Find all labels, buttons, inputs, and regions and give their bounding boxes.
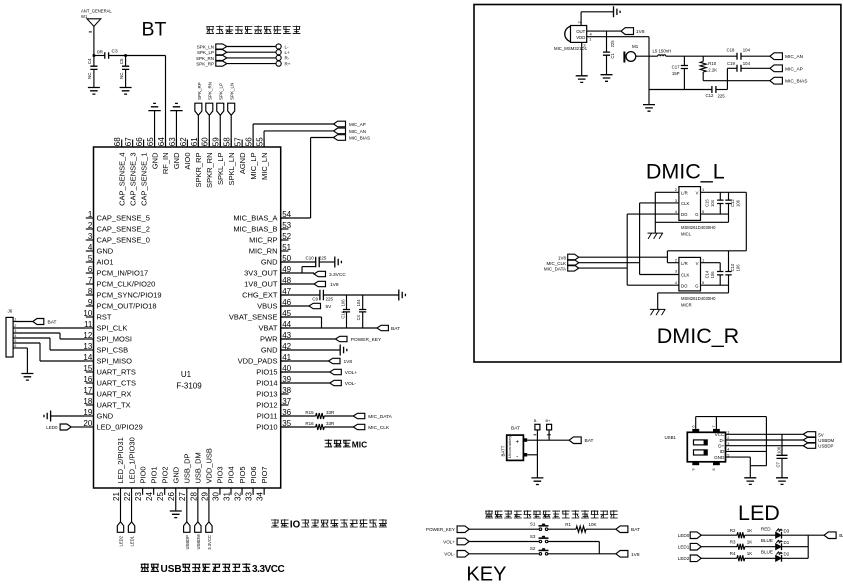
ground (C7) <box>776 478 788 485</box>
svg-text:UART_RTS: UART_RTS <box>97 368 136 377</box>
U1 pin 59 SPKL_LP <box>219 140 221 148</box>
svg-text:38: 38 <box>282 386 291 395</box>
svg-text:C18: C18 <box>727 48 735 53</box>
svg-text:SPK_LP: SPK_LP <box>219 83 224 100</box>
svg-text:8: 8 <box>88 287 93 296</box>
U1 pin 53 MIC_BIAS_B <box>281 228 289 230</box>
resistor R16 33R <box>281 426 316 428</box>
wire MICR G <box>701 284 729 286</box>
wire MIC_LN (pin55) to MIC_AN <box>263 131 265 147</box>
ground bar above pin 63 <box>175 111 177 147</box>
U1 pin 44 VBAT <box>281 327 289 329</box>
wire J6-6 to ground <box>13 347 27 349</box>
svg-text:1V8: 1V8 <box>558 255 567 260</box>
U1 pin 18 UART_TX <box>86 404 94 406</box>
svg-text:GND: GND <box>97 247 114 256</box>
net tag MIC_CLK <box>353 424 365 429</box>
wire LED1 to R3 <box>701 546 737 548</box>
U1 pin 49 3V3_OUT <box>281 272 289 274</box>
svg-text:1: 1 <box>88 210 93 219</box>
wire R1 to BAT tag <box>586 528 616 530</box>
net tag USBDM (pin28) <box>197 495 199 522</box>
svg-text:MIC_AN: MIC_AN <box>785 54 804 60</box>
svg-text:VCC: VCC <box>715 432 725 437</box>
U1 pin 63 GND <box>175 140 177 148</box>
wire C19 to MIC_AP tag <box>741 67 770 69</box>
net tag MIC_AP <box>334 121 346 127</box>
svg-text:1K: 1K <box>747 551 753 556</box>
wire J6-4 to SPI_CSB <box>13 337 50 339</box>
svg-text:55: 55 <box>255 137 264 146</box>
svg-text:RST: RST <box>97 313 112 322</box>
svg-text:MICL: MICL <box>681 232 692 237</box>
capacitor C4 (NC) <box>124 54 127 57</box>
svg-text:D1: D1 <box>784 540 790 545</box>
svg-text:34: 34 <box>256 492 265 501</box>
U1 pin 47 CHG_EXT <box>281 294 289 296</box>
sideways ground (mic top) <box>614 6 621 17</box>
pad B- <box>535 424 540 430</box>
svg-text:3.3VCC: 3.3VCC <box>329 272 346 278</box>
svg-text:SPK_LP: SPK_LP <box>197 50 214 55</box>
svg-text:LED_1/PIO30: LED_1/PIO30 <box>127 437 136 483</box>
U1 pin 66 CAP_SENSE_1 <box>143 140 145 148</box>
svg-text:5V: 5V <box>326 304 333 310</box>
ground (rail) <box>648 90 650 105</box>
svg-text:1K: 1K <box>747 528 753 533</box>
wire D1 to bus <box>782 546 809 548</box>
wire mic pin3 to ground <box>581 42 583 75</box>
svg-text:225: 225 <box>319 256 327 261</box>
wire mic OUT to 1V8 tag <box>587 30 621 32</box>
svg-text:IO: IO <box>290 520 301 531</box>
U1 pin 50 GND <box>281 261 289 263</box>
svg-text:225: 225 <box>718 94 726 99</box>
wire C18 to MIC_AN tag <box>741 55 770 57</box>
svg-text:106: 106 <box>710 271 715 279</box>
capacitor C9 225 <box>320 290 324 301</box>
svg-text:225: 225 <box>610 40 615 48</box>
net tag 1V8 (pin41) <box>329 358 341 363</box>
mic module MIC_MSM321D1 <box>571 26 587 43</box>
ground (pin26 GND) <box>175 495 177 511</box>
wire battery+ to BAT tag <box>527 439 569 441</box>
svg-text:PIO13: PIO13 <box>256 390 277 399</box>
capacitor C13 106 (MICR) <box>728 251 730 272</box>
wire C9 to ground rail <box>323 294 398 296</box>
U1 pin 48 1V8_OUT <box>281 283 289 285</box>
svg-text:5V: 5V <box>818 432 823 437</box>
wire MICR ground net <box>728 285 730 293</box>
wire R3 to D1 <box>745 546 776 548</box>
svg-text:37: 37 <box>282 397 291 406</box>
svg-text:6: 6 <box>88 265 93 274</box>
svg-text:MIC_DATA: MIC_DATA <box>368 414 392 420</box>
U1 pin 21 LED_2/PIO31 <box>120 488 122 495</box>
U1 pin 12 SPI_MOSI <box>86 338 94 340</box>
U1 pin 6 PCM_IN/PIO17 <box>86 272 94 274</box>
svg-text:C12: C12 <box>730 199 735 207</box>
wire mic pin2 to sideways ground <box>580 12 582 26</box>
net tag 1V8 (KEY) <box>616 551 628 558</box>
svg-text:PIO10: PIO10 <box>256 423 277 432</box>
sideways ground (pin50) <box>335 257 342 268</box>
net tag USBDP (pin27) <box>186 495 188 522</box>
diagonal ground (MICL) <box>648 233 664 239</box>
svg-text:9: 9 <box>692 469 696 471</box>
svg-text:SPK_LN: SPK_LN <box>230 83 235 100</box>
svg-text:GND: GND <box>172 152 181 169</box>
svg-text:USBDP: USBDP <box>818 444 833 449</box>
svg-text:D3: D3 <box>784 528 790 533</box>
svg-text:57: 57 <box>234 137 243 146</box>
wire S1 to R1 <box>548 528 576 530</box>
svg-text:PIO5: PIO5 <box>238 466 247 483</box>
svg-text:LED0: LED0 <box>46 425 58 430</box>
resistor R1 10K <box>576 526 586 532</box>
svg-text:24: 24 <box>145 492 154 501</box>
svg-text:VBAT_SENSE: VBAT_SENSE <box>229 313 278 322</box>
net tag BAT (J6) <box>33 319 44 325</box>
header pin R- <box>276 55 281 60</box>
net tag USBDP <box>803 443 816 448</box>
svg-text:BLUE: BLUE <box>761 538 773 543</box>
wire C3 to RF_IN <box>109 55 166 57</box>
svg-text:KEY: KEY <box>466 564 506 585</box>
svg-text:J6: J6 <box>8 309 13 314</box>
U1 pin 5 AIO1 <box>86 261 94 263</box>
U1 pin 45 VBAT_SENSE <box>281 316 289 318</box>
svg-text:CHG_EXT: CHG_EXT <box>242 291 278 300</box>
svg-text:3.3VCC: 3.3VCC <box>252 564 285 575</box>
wire R2 to D3 <box>745 534 776 536</box>
IC U1 F-3109 body <box>94 147 281 488</box>
pad B+ <box>547 424 552 430</box>
svg-text:U1: U1 <box>181 370 192 379</box>
svg-text:C1: C1 <box>610 53 615 59</box>
wire B+ to BAT net <box>548 430 550 440</box>
svg-text:DO: DO <box>681 283 688 288</box>
svg-text:15P: 15P <box>672 71 680 76</box>
switch S1 <box>539 528 542 531</box>
svg-text:LED1: LED1 <box>678 545 690 550</box>
svg-text:31: 31 <box>222 492 231 501</box>
svg-text:UART_RX: UART_RX <box>97 390 132 399</box>
wire pin44 VBAT row <box>281 327 377 329</box>
svg-text:3.3VCC: 3.3VCC <box>207 535 212 550</box>
svg-text:VDD_PADS: VDD_PADS <box>238 357 278 366</box>
wire J6-2 to SPI_CLK <box>13 327 86 329</box>
U1 pin 58 SPKL_LN <box>230 140 232 148</box>
wire C10 to ground <box>319 261 335 263</box>
svg-text:PIO4: PIO4 <box>227 466 236 483</box>
capacitor C14 106 (MICR) <box>719 263 721 272</box>
svg-text:L-: L- <box>285 44 290 49</box>
svg-text:106: 106 <box>735 264 740 272</box>
svg-text:SPKL_LP: SPKL_LP <box>216 153 225 186</box>
svg-text:BAT: BAT <box>511 425 520 431</box>
svg-text:SPKL_LN: SPKL_LN <box>227 153 236 186</box>
switch S2 <box>539 553 542 556</box>
svg-text:LED1: LED1 <box>130 535 135 546</box>
U1 pin 24 PIO1 <box>153 488 155 495</box>
svg-text:SPI_MOSI: SPI_MOSI <box>97 335 132 344</box>
wire pin49 3V3_OUT <box>281 272 314 274</box>
svg-text:GND: GND <box>97 412 114 421</box>
wire SPK_RN to header pin <box>227 57 276 59</box>
svg-text:R16: R16 <box>305 421 314 426</box>
svg-text:1V8_OUT: 1V8_OUT <box>244 280 278 289</box>
net tag 3.3VCC (pin49) <box>314 271 326 276</box>
svg-text:106: 106 <box>735 199 740 207</box>
wire LED2 to R4 <box>701 557 737 559</box>
svg-text:R4: R4 <box>730 551 736 556</box>
net tag 5V (pin46) <box>309 303 321 308</box>
svg-text:AIO0: AIO0 <box>183 153 192 170</box>
svg-text:B+: B+ <box>546 419 552 423</box>
svg-text:RF_IN: RF_IN <box>161 153 170 175</box>
svg-text:SPI_CSB: SPI_CSB <box>97 346 129 355</box>
svg-text:RED: RED <box>761 527 771 532</box>
svg-text:2: 2 <box>88 221 93 230</box>
net tag LED1 (pin22) <box>131 495 133 522</box>
svg-text:GND: GND <box>171 466 180 483</box>
resistor R3 1K <box>737 544 745 550</box>
net tag BAT (battery) <box>569 437 581 444</box>
wire MICL G <box>701 213 729 215</box>
svg-text:C15: C15 <box>705 199 710 207</box>
net tag POWER_KEY <box>336 336 348 341</box>
wire MICR DO <box>627 284 679 286</box>
U1 pin 36 PIO11 <box>281 415 289 417</box>
svg-text:PCM_IN/PIO17: PCM_IN/PIO17 <box>97 269 149 278</box>
svg-text:33: 33 <box>245 492 254 501</box>
svg-text:104: 104 <box>710 199 715 207</box>
svg-text:53: 53 <box>282 221 291 230</box>
svg-text:MIC_MSM321D1: MIC_MSM321D1 <box>554 46 588 51</box>
net tag BAT (KEY) <box>616 526 628 533</box>
svg-text:ANT_GENERAL: ANT_GENERAL <box>81 8 112 13</box>
svg-text:64: 64 <box>157 137 166 146</box>
svg-text:SPK_RN: SPK_RN <box>196 56 214 61</box>
wire D2 to bus <box>782 557 809 559</box>
svg-text:23: 23 <box>134 492 143 501</box>
U1 pin 29 VDD_USB <box>208 488 210 495</box>
switch S3 <box>539 540 542 543</box>
svg-text:68: 68 <box>113 137 122 146</box>
svg-text:AIO1: AIO1 <box>97 258 114 267</box>
svg-text:5: 5 <box>88 254 93 263</box>
svg-text:R15: R15 <box>305 410 314 415</box>
U1 pin 41 VDD_PADS <box>281 360 289 362</box>
svg-text:67: 67 <box>124 137 133 146</box>
svg-text:CAP_SENSE_5: CAP_SENSE_5 <box>97 214 150 223</box>
svg-text:61: 61 <box>190 137 199 146</box>
svg-text:3: 3 <box>88 232 93 241</box>
wire M1 signal <box>636 55 658 57</box>
U1 pin 54 MIC_BIAS_A <box>281 217 289 219</box>
svg-text:MIC: MIC <box>352 440 367 450</box>
U1 pin 33 PIO6 <box>252 488 254 495</box>
svg-text:PIO14: PIO14 <box>256 379 277 388</box>
wire R4 to D2 <box>745 557 776 559</box>
svg-text:VOL-: VOL- <box>444 552 455 557</box>
svg-text:32: 32 <box>233 492 242 501</box>
USB shell wire <box>695 417 697 429</box>
svg-text:PWR: PWR <box>260 335 278 344</box>
svg-text:VOL-: VOL- <box>345 381 357 387</box>
svg-text:25: 25 <box>156 492 165 501</box>
net tag USBDM <box>803 437 816 442</box>
U1 pin 34 PIO7 <box>263 488 265 495</box>
svg-text:R2: R2 <box>730 528 736 533</box>
connector J6 <box>6 317 13 357</box>
svg-text:V: V <box>696 190 699 195</box>
svg-text:MSM261D4030H0: MSM261D4030H0 <box>681 225 716 230</box>
capacitor C5 (NC) <box>125 56 127 67</box>
svg-text:F-3109: F-3109 <box>176 382 202 391</box>
svg-text:VBUS: VBUS <box>257 302 277 311</box>
wire USB GND to ground <box>726 456 751 458</box>
svg-text:USBDM: USBDM <box>196 534 201 550</box>
svg-text:SPI_CLK: SPI_CLK <box>97 324 128 333</box>
svg-text:SPI_MISO: SPI_MISO <box>97 357 133 366</box>
svg-text:9: 9 <box>88 298 93 307</box>
capacitor C16b 106 (MICL) <box>728 192 730 200</box>
svg-text:MIC_BIAS: MIC_BIAS <box>785 79 807 85</box>
wire S3 to 1V8 net <box>548 541 599 543</box>
svg-text:SPK_RP: SPK_RP <box>196 62 214 67</box>
svg-text:SPK_RP: SPK_RP <box>197 82 202 100</box>
svg-text:MIC_RP: MIC_RP <box>249 236 277 245</box>
svg-text:USB: USB <box>161 564 182 575</box>
svg-text:MIC_DATA: MIC_DATA <box>544 267 566 272</box>
svg-text:CAP_SENSE_4: CAP_SENSE_4 <box>117 153 126 206</box>
svg-text:C19: C19 <box>727 61 735 66</box>
U1 pin 25 PIO2 <box>164 488 166 495</box>
svg-text:AGND: AGND <box>238 152 247 174</box>
svg-text:NC: NC <box>119 72 124 79</box>
U1 pin 3 CAP_SENSE_0 <box>86 239 94 241</box>
resistor R2 1K <box>737 532 745 538</box>
svg-text:BAT: BAT <box>585 438 594 444</box>
svg-text:1V8: 1V8 <box>636 29 645 35</box>
U1 pin 68 CAP_SENSE_4 <box>121 140 123 148</box>
wire SPK_LN to header pin <box>227 46 276 48</box>
wire MICR L/R <box>667 262 679 264</box>
wire USB D+ to USBDP tag <box>726 445 804 447</box>
svg-text:CAP_SENSE_0: CAP_SENSE_0 <box>97 236 150 245</box>
svg-text:33R: 33R <box>326 410 335 415</box>
U1 pin 62 AIO0 <box>186 140 188 148</box>
wire pin45 VBAT_SENSE to VBAT <box>281 316 322 318</box>
svg-text:D-: D- <box>719 438 724 443</box>
svg-text:BAT: BAT <box>839 533 843 539</box>
net tag 5V (USB) <box>803 432 816 437</box>
capacitor C16 106 <box>346 295 348 310</box>
U1 pin 14 SPI_MISO <box>86 360 94 362</box>
wire LED bus to BAT tag <box>808 534 824 536</box>
net tag MIC_BIAS <box>334 135 346 141</box>
svg-text:7: 7 <box>712 426 716 428</box>
wire L5 to C18 <box>666 55 737 57</box>
net tag MIC_AP (mic) <box>770 65 783 72</box>
svg-text:33R: 33R <box>326 421 335 426</box>
svg-text:OUT: OUT <box>576 29 585 34</box>
svg-text:DMIC_R: DMIC_R <box>657 324 739 348</box>
note other IO (Chinese) <box>271 519 279 527</box>
wire B- to ground <box>536 430 538 478</box>
wire POWER_KEY to S1 <box>469 528 539 530</box>
wire antenna to C3 <box>94 55 105 57</box>
svg-text:1K: 1K <box>747 539 753 544</box>
svg-text:63: 63 <box>168 137 177 146</box>
U1 pin 37 PIO12 <box>281 404 289 406</box>
wire bias row to MIC_BIAS tag <box>703 80 770 82</box>
svg-text:M1: M1 <box>632 44 639 49</box>
net tag MIC_AN <box>334 128 346 134</box>
svg-text:UART_TX: UART_TX <box>97 401 131 410</box>
svg-text:C9: C9 <box>312 296 318 301</box>
svg-text:MSM261D4030H0: MSM261D4030H0 <box>681 296 716 301</box>
svg-text:MIC_CLK: MIC_CLK <box>546 261 566 266</box>
DMIC MICR MSM261D4030H0 <box>679 257 701 291</box>
svg-text:UART_CTS: UART_CTS <box>97 379 136 388</box>
svg-text:C10: C10 <box>306 256 315 261</box>
svg-text:L5 150nH: L5 150nH <box>653 49 672 54</box>
net tag VOL- <box>330 380 342 385</box>
wire 1V8 to DMIC net <box>579 256 668 258</box>
svg-text:PIO3: PIO3 <box>216 466 225 483</box>
svg-text:4: 4 <box>88 243 93 252</box>
net tag MIC_AN (mic) <box>770 53 783 60</box>
U1 pin 13 SPI_CSB <box>86 349 94 351</box>
svg-text:MIC_AN: MIC_AN <box>349 129 366 134</box>
svg-text:1V8: 1V8 <box>344 359 353 365</box>
net tag LED0 (pin 20) <box>71 426 86 428</box>
svg-text:BT: BT <box>142 19 167 41</box>
svg-text:L/R: L/R <box>681 190 688 195</box>
svg-text:MIC_LN: MIC_LN <box>260 153 269 181</box>
U1 pin 15 UART_RTS <box>86 371 94 373</box>
DMIC bus wire <box>667 250 746 252</box>
ground below C1 <box>601 75 613 82</box>
wire USB VCC to 5V tag <box>726 433 804 435</box>
U1 pin 46 VBUS <box>281 305 289 307</box>
svg-text:PIO6: PIO6 <box>249 466 258 483</box>
wire pin39 to VOL- tag <box>281 382 330 384</box>
svg-text:USBDP: USBDP <box>185 535 190 550</box>
svg-text:66: 66 <box>135 137 144 146</box>
svg-text:MIC_RN: MIC_RN <box>249 247 278 256</box>
U1 pin 55 MIC_LN <box>263 140 265 148</box>
header pin L- <box>276 44 281 49</box>
header pin R+ <box>276 61 281 66</box>
svg-text:PIO1: PIO1 <box>149 466 158 483</box>
svg-text:MIC_LP: MIC_LP <box>249 153 258 180</box>
U1 pin 32 PIO5 <box>241 488 243 495</box>
svg-text:L+: L+ <box>285 50 291 55</box>
svg-text:PCM_CLK/PIO20: PCM_CLK/PIO20 <box>97 280 156 289</box>
capacitor C15 104 (MICL) <box>719 192 721 200</box>
wire mic VDD to rail <box>587 36 649 38</box>
svg-text:Lithium battery: Lithium battery <box>508 436 512 459</box>
ground below C4 <box>88 88 100 95</box>
svg-text:6: 6 <box>692 426 696 428</box>
wire VOL+ to S3 <box>469 541 539 543</box>
ground (J6) <box>21 374 33 381</box>
sideways ground (pin42) <box>281 349 341 351</box>
